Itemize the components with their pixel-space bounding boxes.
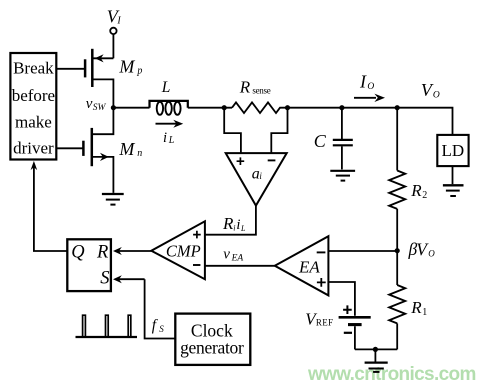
svg-text:make: make [15, 112, 52, 131]
wire vSW to inductor [113, 107, 149, 109]
wire Q output to driver with arrow [31, 161, 68, 251]
wire ai output to CMP + input [205, 206, 256, 235]
svg-text:I: I [116, 15, 121, 26]
svg-text:S: S [100, 269, 109, 289]
svg-text:R: R [222, 214, 234, 233]
wire EA - input to betaVO [328, 250, 397, 252]
wire vEA from EA to CMP - input [205, 265, 275, 267]
svg-text:EA: EA [298, 257, 320, 276]
svg-text:C: C [314, 131, 327, 151]
resistor R2 [389, 108, 427, 251]
svg-text:L: L [240, 224, 246, 233]
label VO [421, 80, 440, 100]
svg-text:O: O [433, 91, 440, 101]
node betaVO [395, 239, 436, 259]
transistor Mn [83, 108, 142, 193]
svg-text:p: p [136, 66, 142, 77]
wire inductor to Rsense [188, 107, 232, 109]
svg-text:i: i [233, 223, 235, 232]
wire clock to S input [113, 275, 175, 338]
svg-text:before: before [12, 86, 55, 105]
wire battery to R1 bottom [355, 348, 397, 350]
resistor R1 [389, 251, 427, 350]
svg-text:Break: Break [13, 58, 54, 77]
svg-text:driver: driver [13, 139, 54, 158]
wire to bottom ground [374, 349, 376, 361]
svg-text:CMP: CMP [166, 242, 201, 261]
op-amp EA [275, 236, 329, 295]
svg-text:Q: Q [71, 242, 85, 262]
svg-text:R: R [410, 298, 422, 317]
svg-text:i: i [163, 130, 167, 146]
ground below C [330, 171, 355, 181]
svg-text:M: M [118, 139, 135, 159]
wire CMP output to R input [113, 247, 151, 255]
svg-text:L: L [161, 79, 171, 96]
svg-text:O: O [428, 248, 435, 258]
ground bottom [365, 363, 388, 372]
svg-text:f: f [152, 317, 159, 334]
ground below LD [443, 185, 464, 196]
svg-text:v: v [223, 247, 230, 263]
svg-text:M: M [118, 56, 135, 76]
flip-flop QRS box [67, 239, 111, 291]
svg-text:2: 2 [422, 190, 427, 201]
battery VREF [305, 305, 370, 349]
svg-text:1: 1 [422, 307, 427, 318]
label vEA [223, 247, 243, 264]
clock generator box [175, 314, 250, 365]
break-before-make driver box [10, 53, 56, 160]
wire EA + input to VREF [328, 282, 355, 316]
op-amp ai [226, 153, 287, 206]
svg-text:S: S [159, 324, 164, 334]
wire Rsense left to ai + input [224, 108, 241, 153]
ground below Mn [102, 194, 124, 205]
node vSW [86, 96, 116, 113]
node left of Rsense [222, 105, 227, 110]
node right of Rsense [285, 105, 290, 110]
current arrow iL [156, 120, 184, 147]
svg-text:sense: sense [252, 86, 270, 96]
svg-text:R: R [410, 181, 422, 200]
svg-text:n: n [137, 148, 142, 159]
svg-text:R: R [96, 242, 108, 262]
svg-text:i: i [236, 217, 240, 233]
svg-text:I: I [359, 72, 367, 92]
label Ri iL [222, 214, 246, 233]
svg-text:O: O [367, 82, 374, 92]
svg-text:R: R [239, 77, 251, 96]
terminal V1 [107, 6, 122, 34]
svg-text:generator: generator [180, 337, 244, 357]
svg-text:www.cntronics.com: www.cntronics.com [307, 364, 476, 385]
svg-text:REF: REF [316, 317, 333, 327]
wire V1 to Mp source [112, 34, 114, 58]
wire Mn gate [56, 147, 84, 149]
capacitor C [314, 108, 353, 170]
resistor Rsense [232, 77, 288, 113]
clock pulses [76, 315, 138, 337]
svg-text:L: L [168, 135, 175, 146]
comparator CMP [151, 221, 205, 279]
LD box [437, 135, 468, 166]
inductor L [150, 79, 188, 115]
current arrow IO [354, 72, 385, 102]
wire Mp gate [56, 68, 86, 70]
node ground junction [373, 347, 378, 352]
node R2 branch [395, 105, 400, 110]
svg-text:EA: EA [231, 253, 244, 263]
wire LD to ground [452, 167, 454, 185]
svg-text:LD: LD [441, 141, 464, 160]
wire Rsense right to ai - input [271, 108, 287, 153]
transistor Mp [85, 49, 142, 108]
label fS [152, 317, 165, 334]
node C branch [339, 105, 344, 110]
svg-text:SW: SW [93, 103, 107, 113]
wire Rsense to output rail [288, 108, 453, 134]
